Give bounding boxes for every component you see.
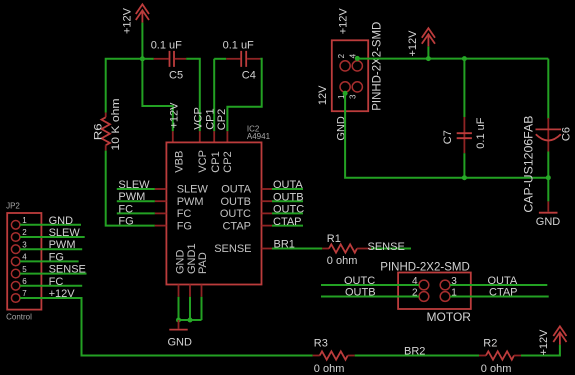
svg-text:SLEW: SLEW [118, 179, 150, 191]
svg-text:OUTB: OUTB [273, 191, 304, 203]
svg-text:SENSE: SENSE [49, 264, 86, 276]
supply +12V top-right [407, 28, 435, 56]
pin JP2-3 [11, 245, 20, 254]
svg-text:PINHD-2X2-SMD: PINHD-2X2-SMD [372, 22, 384, 111]
svg-text:0.1 uF: 0.1 uF [151, 40, 182, 52]
svg-text:C4: C4 [242, 70, 256, 82]
pin CTAP stub [262, 225, 273, 227]
svg-text:JP2: JP2 [6, 202, 20, 211]
wire OUTB to motor [321, 287, 419, 299]
svg-text:CTAP: CTAP [489, 287, 518, 299]
svg-text:CP2: CP2 [216, 109, 228, 130]
svg-text:OUTC: OUTC [220, 208, 251, 220]
svg-text:PWM: PWM [118, 191, 145, 203]
pin MOTOR-2 [419, 292, 429, 302]
svg-text:FC: FC [49, 276, 64, 288]
capacitor C7 [442, 59, 487, 154]
svg-text:BR2: BR2 [404, 346, 425, 358]
wire CTAP from motor [450, 287, 549, 299]
svg-text:GND: GND [175, 250, 187, 275]
wire +12V from supply to junction [141, 23, 143, 59]
svg-text:SENSE: SENSE [368, 241, 405, 253]
label 12V left of connector [317, 85, 329, 105]
svg-text:FG: FG [118, 216, 133, 228]
wire SENSE JP2 [20, 264, 87, 276]
pin MOTOR-3 [440, 280, 450, 290]
wire OUTC to motor [321, 275, 419, 287]
capacitor C5 [142, 40, 186, 82]
svg-text:6: 6 [22, 277, 27, 286]
pin JP2-4 [11, 257, 20, 266]
svg-text:2: 2 [22, 228, 27, 237]
svg-text:FG: FG [177, 220, 192, 232]
pin GND stub [178, 285, 180, 297]
pin CP1 stub [213, 131, 215, 142]
wire FC label stub [117, 203, 155, 215]
wire SLEW JP2 [20, 227, 85, 239]
svg-text:7: 7 [22, 289, 27, 298]
svg-text:3: 3 [22, 240, 27, 249]
capacitor C4 [214, 40, 260, 82]
label CP2 on wire [216, 109, 228, 130]
svg-text:FC: FC [177, 208, 192, 220]
svg-text:OUTA: OUTA [221, 184, 251, 196]
svg-text:0.1 uF: 0.1 uF [475, 117, 487, 148]
label GND below connector [336, 116, 348, 141]
pin SENSE stub [262, 248, 273, 250]
svg-text:C7: C7 [442, 130, 454, 144]
svg-text:C6: C6 [561, 127, 573, 141]
resistor R2 [479, 338, 521, 375]
connector PINHD-2X2-SMD MOTOR [380, 261, 471, 324]
svg-text:0 ohm: 0 ohm [314, 363, 345, 375]
svg-text:R2: R2 [483, 338, 497, 350]
svg-text:PINHD-2X2-SMD: PINHD-2X2-SMD [380, 261, 469, 273]
svg-text:SLEW: SLEW [49, 227, 81, 239]
svg-text:R6: R6 [93, 123, 105, 140]
wire +12V left branch to R6 [106, 59, 143, 113]
resistor R1 [322, 233, 371, 267]
svg-text:C5: C5 [169, 70, 183, 82]
node junction C7 top [462, 56, 467, 61]
pin SLEW stub [155, 188, 167, 190]
pin PWM stub [155, 200, 167, 202]
label +12V above connector [338, 8, 350, 35]
wire GND bus horizontal [179, 319, 202, 321]
svg-text:R3: R3 [314, 338, 328, 350]
connector PINHD-2X2-SMD top [332, 22, 384, 112]
wire OUTA label stub [272, 179, 303, 191]
wire BR1 [272, 239, 322, 251]
wire OUTB label stub [272, 191, 304, 203]
svg-text:0.1 uF: 0.1 uF [223, 40, 254, 52]
pin JP1-2 [340, 61, 350, 71]
label CP1 on wire [205, 108, 217, 129]
wire C4 right to CP2 [227, 59, 261, 131]
pin FG stub [155, 225, 167, 227]
wire GND1 pin down [189, 297, 191, 320]
wire pin4 to +12V rail [357, 59, 548, 61]
wire PWM label stub [117, 191, 155, 203]
node junction GND left [176, 318, 181, 323]
wire +12V JP2 to bottom rail [20, 288, 313, 356]
pin OUTA stub [262, 188, 273, 190]
wire SLEW label stub [117, 179, 155, 191]
wire R6 bottom to FG [106, 151, 155, 226]
wire C7 bottom to GND rail [463, 153, 465, 178]
pin JP2-5 [11, 269, 20, 278]
supply +12V top-left [122, 4, 150, 34]
wire C5 to VCP [186, 59, 200, 131]
wire R2 to supply [521, 345, 560, 356]
pin MOTOR-1 [440, 292, 450, 302]
svg-text:FC: FC [118, 203, 133, 215]
label +12V at VBB [169, 102, 181, 129]
connector JP2 [6, 202, 41, 322]
node junction pin1 gnd [343, 91, 348, 96]
pin OUTB stub [262, 200, 273, 202]
svg-text:+12V: +12V [338, 8, 350, 35]
svg-text:OUTB: OUTB [220, 196, 251, 208]
pin JP2-7 [11, 294, 20, 303]
svg-text:Control: Control [6, 312, 32, 321]
wire FC JP2 [20, 276, 82, 288]
svg-text:GND1: GND1 [186, 243, 198, 274]
svg-text:VBB: VBB [174, 151, 186, 173]
svg-text:0 ohm: 0 ohm [327, 255, 358, 267]
svg-text:3: 3 [349, 94, 358, 99]
pin GND1 stub [189, 285, 191, 297]
svg-text:GND: GND [49, 215, 74, 227]
svg-text:5: 5 [22, 265, 27, 274]
svg-text:PAD: PAD [197, 252, 209, 274]
svg-text:CP1: CP1 [210, 151, 222, 172]
svg-text:OUTC: OUTC [273, 204, 304, 216]
wire SENSE at R1 [368, 241, 412, 253]
pin CP2 stub [226, 131, 228, 142]
node junction C7 bottom [462, 175, 467, 180]
svg-text:VCP: VCP [192, 107, 204, 130]
svg-text:CP2: CP2 [222, 151, 234, 172]
svg-text:R1: R1 [327, 233, 341, 245]
wire FG JP2 [20, 251, 79, 263]
label FG at IC [118, 216, 133, 228]
svg-text:VCP: VCP [197, 150, 209, 173]
svg-text:CTAP: CTAP [222, 220, 251, 232]
node junction pin4 [355, 56, 360, 61]
wire CTAP label stub [272, 216, 303, 228]
pin VBB stub [172, 131, 174, 142]
ground symbol under C6 [536, 201, 561, 228]
svg-text:GND: GND [536, 216, 561, 228]
svg-text:GND: GND [168, 336, 193, 348]
IC IC2 A4941 (A4941 motor driver) [166, 125, 270, 285]
wire GND JP2 [20, 215, 81, 227]
node junction +12V rail [426, 56, 431, 61]
svg-text:SLEW: SLEW [177, 184, 209, 196]
svg-text:1: 1 [22, 216, 27, 225]
capacitor C6 [522, 59, 573, 213]
svg-text:12V: 12V [317, 85, 329, 105]
resistor R6 [93, 99, 122, 151]
svg-text:4: 4 [22, 253, 27, 262]
svg-text:A4941: A4941 [247, 132, 271, 141]
wire OUTC label stub [272, 204, 304, 216]
svg-text:+12V: +12V [169, 102, 181, 129]
svg-text:OUTA: OUTA [488, 275, 518, 287]
pin JP2-1 [11, 221, 20, 230]
svg-text:2: 2 [337, 53, 346, 58]
pin PAD stub [201, 285, 203, 297]
supply +12V bottom-right [538, 326, 566, 355]
svg-text:CAP-US1206FAB: CAP-US1206FAB [522, 116, 536, 213]
svg-text:OUTA: OUTA [273, 179, 303, 191]
wire PAD pin down [201, 297, 203, 320]
svg-text:BR1: BR1 [274, 239, 295, 251]
svg-text:+12V: +12V [538, 329, 550, 356]
pin JP2-2 [11, 233, 20, 242]
wire +12V middle branch to VBB [142, 59, 172, 131]
node junction C6 GND rail [546, 175, 551, 180]
resistor R3 [313, 338, 355, 375]
svg-text:CP1: CP1 [205, 108, 217, 129]
svg-text:+12V: +12V [407, 30, 419, 57]
svg-text:0 ohm: 0 ohm [481, 363, 512, 375]
svg-text:MOTOR: MOTOR [427, 310, 472, 324]
svg-text:FG: FG [49, 251, 64, 263]
wire supply to rail [427, 46, 429, 58]
wire C4 left to CP1 [213, 59, 215, 131]
svg-text:+12V: +12V [49, 288, 76, 300]
label VCP on wire [192, 107, 204, 130]
wire BR2 [355, 346, 479, 358]
pin JP2-6 [11, 282, 20, 291]
svg-text:PWM: PWM [49, 239, 76, 251]
pin VCP stub [199, 131, 201, 142]
svg-text:CTAP: CTAP [273, 216, 302, 228]
pin JP1-3 [352, 82, 362, 92]
pin MOTOR-4 [419, 280, 429, 290]
node junction GND right [188, 318, 193, 323]
wire OUTA from motor [450, 275, 547, 287]
wire GND pin down [178, 297, 180, 320]
pin OUTC stub [262, 212, 273, 214]
svg-text:SENSE: SENSE [214, 243, 251, 255]
pin JP1-1 [340, 82, 350, 92]
wire pin1 to GND rail [345, 92, 548, 178]
svg-text:10 K ohm: 10 K ohm [110, 99, 122, 151]
svg-text:+12V: +12V [122, 7, 134, 34]
svg-text:OUTC: OUTC [344, 275, 375, 287]
pin FC stub [155, 212, 167, 214]
node junction +12V top-left [140, 56, 145, 61]
svg-text:PWM: PWM [177, 196, 204, 208]
wire PWM JP2 [20, 239, 82, 251]
pin JP1-4 [352, 61, 362, 71]
wire C6 bottom to GND [547, 152, 549, 202]
ground symbol under IC [168, 320, 193, 348]
svg-text:OUTB: OUTB [345, 287, 376, 299]
